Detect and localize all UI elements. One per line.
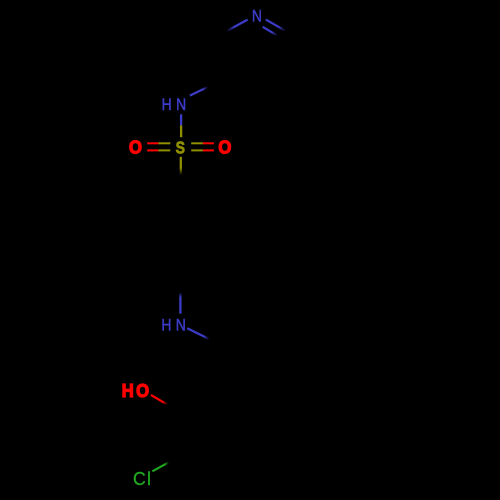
svg-text:O: O	[129, 137, 142, 158]
oxygen O1 label (left)	[129, 137, 142, 158]
wire N1-C2 half-bond (up-left of ring)	[227, 20, 248, 32]
svg-text:H: H	[161, 316, 171, 335]
wire N-S bond upper (blue) half	[180, 114, 182, 125]
oxygen O2 label (right)	[218, 137, 231, 158]
sulfonamide H-N label	[162, 96, 187, 115]
wire N1=C6 outer half-bond (double bond outer line)	[266, 20, 286, 31]
svg-text:C: C	[133, 469, 146, 489]
wire Cl-C half-bond going up-right	[152, 462, 168, 471]
svg-text:l: l	[147, 468, 151, 489]
sulfur S1 label	[176, 138, 186, 158]
svg-text:H: H	[162, 96, 172, 115]
svg-text:O: O	[218, 137, 231, 158]
wire S1=O2 upper line	[191, 142, 214, 144]
wire N-CH2 half-bond going down-right	[187, 328, 209, 339]
wire C-N half-bond above amine NH	[179, 292, 181, 314]
hydroxyl H-O label	[122, 380, 149, 401]
amine H-N label (lower)	[161, 316, 185, 335]
svg-text:N: N	[252, 7, 262, 26]
svg-text:H: H	[122, 380, 134, 401]
wire S1=O1 upper line	[147, 142, 170, 144]
svg-text:N: N	[176, 96, 186, 115]
wire S1=O1 lower line	[147, 149, 170, 151]
chlorine Cl label	[133, 468, 151, 489]
wire N1=C6 inner half-bond (double bond inner line)	[263, 27, 278, 36]
svg-text:O: O	[136, 380, 149, 401]
wire HN-to-ring half-bond	[190, 87, 208, 96]
wire S1-C(methylene) half-bond going down	[180, 157, 182, 175]
wire N-S bond lower (sulfur) half	[180, 125, 182, 137]
svg-text:N: N	[176, 316, 186, 335]
wire S1=O2 lower line	[191, 149, 214, 151]
pyridine ring N1 label	[252, 7, 262, 26]
svg-text:S: S	[176, 138, 186, 158]
wire O-C half-bond from hydroxyl	[151, 395, 167, 405]
